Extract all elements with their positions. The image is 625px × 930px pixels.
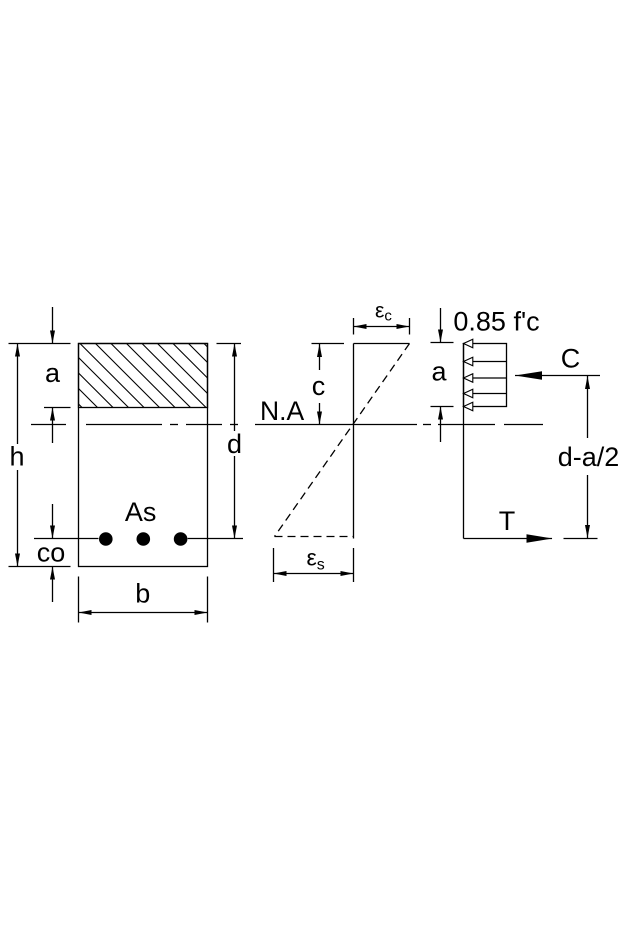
svg-text:0.85 f'c: 0.85 f'c: [453, 307, 539, 337]
eps_s extension line right: [353, 548, 355, 582]
a (right) top arrow stem: [440, 308, 442, 343]
arrowhead a-right top (down): [438, 330, 443, 343]
stress arrow triangle 4: [464, 389, 473, 398]
strain diagram bottom edge (dashed): [275, 536, 354, 538]
h dimension line lower segment: [17, 470, 19, 567]
arrowhead T force (right): [527, 534, 553, 543]
strain diagram top edge: [354, 343, 410, 345]
stress block rectangle: [464, 344, 507, 407]
stress block inner line 2: [464, 377, 507, 379]
arrowhead co bottom (up): [50, 567, 55, 580]
N.A centerline dash-dot: [31, 424, 66, 426]
arrowhead co top (down): [50, 526, 55, 539]
arrowhead h top (up): [15, 344, 20, 357]
arrowhead a-left top (down): [50, 331, 55, 344]
rebar level line right segment: [188, 538, 243, 540]
eps_c dimension line: [354, 326, 410, 328]
arrowhead C force (left): [515, 371, 542, 380]
rebar dot 2: [137, 532, 151, 546]
arrowhead a-right bottom (up): [438, 407, 443, 420]
arrowhead a-left bottom (up): [50, 408, 55, 421]
svg-text:T: T: [499, 506, 516, 536]
co top arrow stem: [52, 504, 54, 539]
arrowhead eps_c right (right): [397, 324, 410, 329]
arrowhead b right (right): [195, 610, 208, 615]
d top extension line: [217, 343, 242, 345]
strain diagram vertical axis: [353, 344, 355, 539]
b extension line left: [78, 577, 80, 623]
svg-text:co: co: [37, 538, 66, 568]
eps_s extension line left: [273, 548, 275, 582]
stress arrow triangle 1: [464, 339, 473, 348]
arrowhead d-a/2 bottom (down): [585, 525, 590, 538]
stress block inner line 3: [464, 393, 507, 395]
a (right) bottom extension line: [431, 406, 454, 408]
dimension a (left) bottom extension line: [44, 407, 71, 409]
stress arrow triangle 2: [464, 357, 473, 366]
rebar level line left segment: [34, 538, 99, 540]
stress arrow triangle 5: [464, 402, 473, 411]
arrowhead c top (up): [317, 344, 322, 357]
eps_c extension line right: [409, 318, 411, 335]
svg-text:C: C: [561, 344, 581, 374]
strain diagram diagonal (dashed): [275, 344, 410, 537]
b dimension line: [79, 612, 208, 614]
a (right) bottom arrow stem: [440, 407, 442, 443]
stress arrow triangle 3: [464, 374, 473, 383]
arrowhead d-a/2 top (up): [585, 376, 590, 389]
rebar dot 3: [174, 532, 188, 546]
compression block hatch region: [79, 344, 208, 408]
beam cross-section outline: [79, 344, 208, 567]
d dimension line lower segment: [234, 456, 236, 539]
d-a/2 upper arrow stem: [587, 376, 589, 438]
rebar dot 1: [99, 532, 113, 546]
arrowhead eps_s left (left): [274, 571, 287, 576]
stress block inner line 1: [464, 361, 507, 363]
d dimension line upper segment: [234, 344, 236, 432]
b extension line right: [207, 577, 209, 623]
svg-text:a: a: [45, 358, 61, 388]
arrowhead d bottom (down): [232, 526, 237, 539]
svg-text:h: h: [9, 442, 24, 472]
arrowhead c bottom (down): [317, 412, 322, 425]
co bottom arrow stem: [52, 567, 54, 603]
dimension a (left) top arrow stem: [52, 307, 54, 344]
arrowhead b left (left): [79, 610, 92, 615]
T level extension line: [564, 538, 598, 540]
svg-text:b: b: [135, 579, 150, 609]
svg-text:a: a: [431, 357, 447, 387]
svg-text:d: d: [227, 429, 242, 459]
svg-text:d-a/2: d-a/2: [558, 442, 620, 472]
arrowhead eps_c left (left): [354, 324, 367, 329]
C force line: [515, 375, 600, 377]
beam bottom extension line (left): [9, 566, 71, 568]
c dimension lower arrow stem: [319, 403, 321, 425]
a (right) top extension line: [431, 342, 454, 344]
eps_s dimension line: [274, 573, 354, 575]
stress diagram vertical axis: [463, 344, 465, 539]
dimension a (left) bottom arrow stem: [52, 408, 54, 444]
T force line: [464, 538, 553, 540]
arrowhead d top (up): [232, 344, 237, 357]
h dimension line upper segment: [17, 344, 19, 445]
svg-text:c: c: [312, 371, 326, 401]
eps_c extension line left: [353, 318, 355, 335]
arrowhead h bottom (down): [15, 554, 20, 567]
svg-text:N.A: N.A: [260, 396, 305, 426]
c dimension upper arrow stem: [319, 344, 321, 370]
d-a/2 lower arrow stem: [587, 475, 589, 538]
arrowhead eps_s right (right): [341, 571, 354, 576]
c top extension line: [312, 343, 345, 345]
svg-text:As: As: [125, 497, 157, 527]
top extension line (beam top, left): [9, 343, 71, 345]
